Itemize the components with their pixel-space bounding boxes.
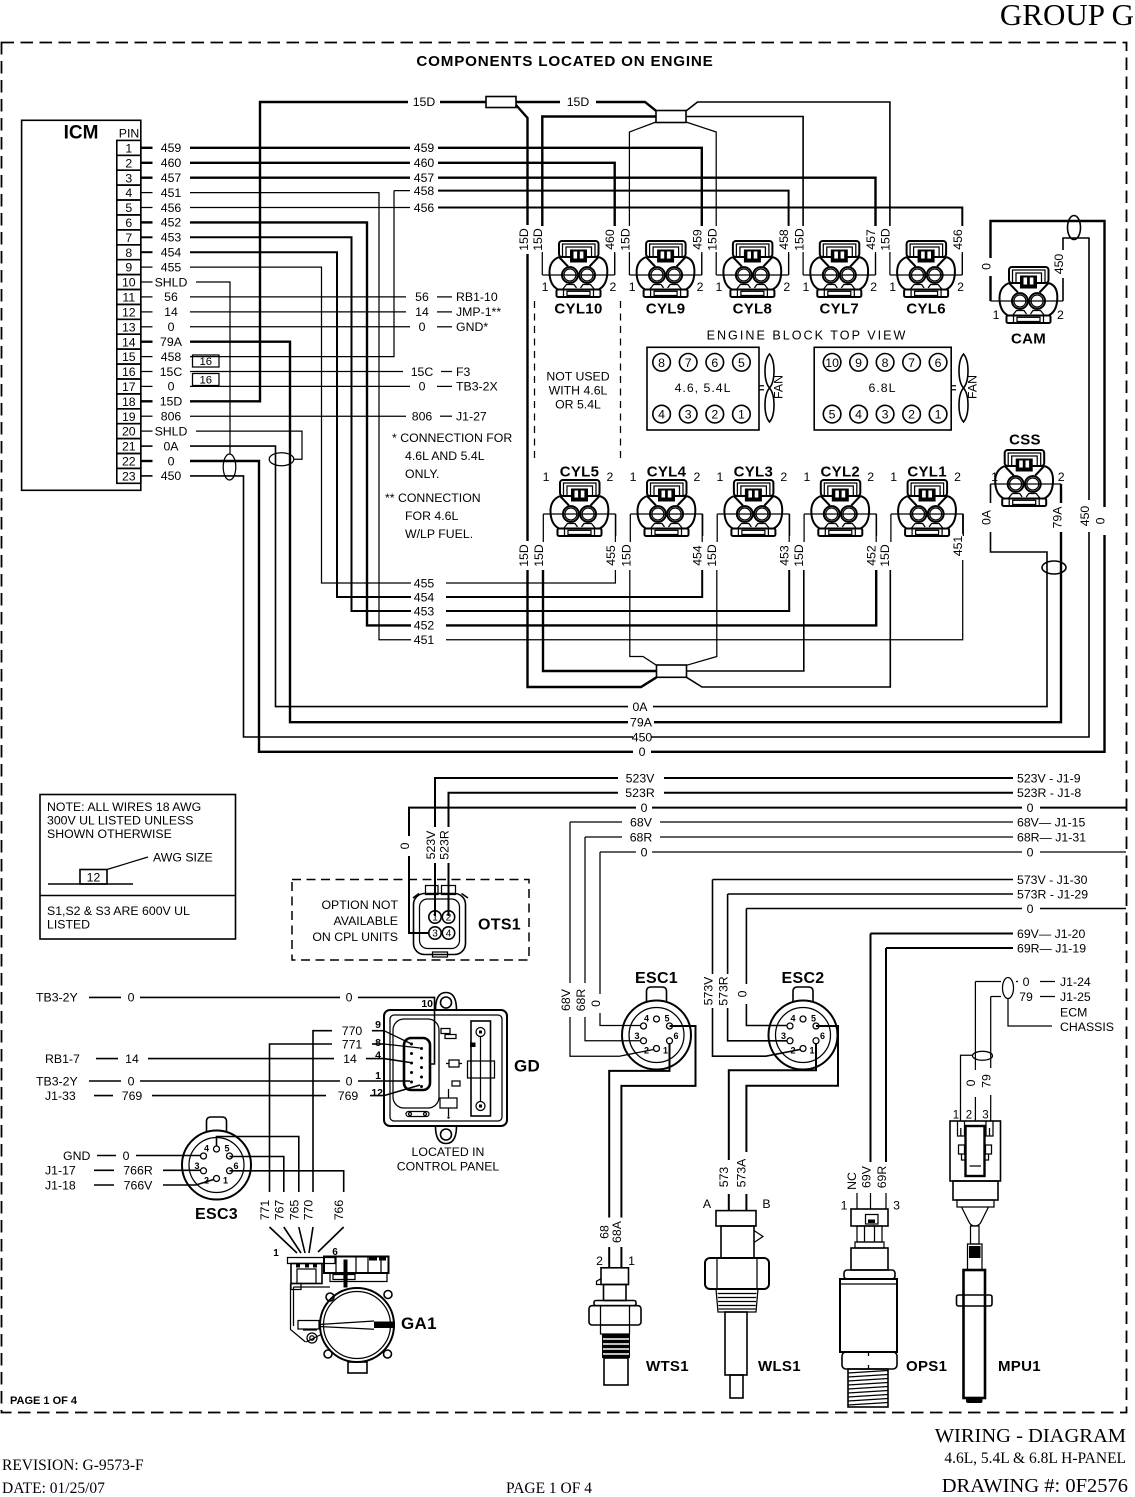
svg-text:FAN: FAN xyxy=(966,375,980,399)
wire 573V riser xyxy=(702,880,801,1057)
svg-text:765: 765 xyxy=(287,1200,301,1221)
connector ESC2 xyxy=(769,970,838,1070)
wire 56 to RB1-10 xyxy=(190,290,498,304)
wire 68R xyxy=(585,830,1086,844)
pin 6 wire label 452 xyxy=(141,216,182,230)
svg-text:8: 8 xyxy=(658,356,665,370)
svg-text:15D: 15D xyxy=(878,228,892,251)
ICM pin 15 xyxy=(117,349,141,364)
svg-text:CYL10: CYL10 xyxy=(554,301,602,318)
svg-text:523V - J1-9: 523V - J1-9 xyxy=(1017,771,1081,785)
svg-text:69R: 69R xyxy=(875,1166,889,1189)
pin 11 wire label 56 xyxy=(141,290,178,304)
wire 0A net (ICM 21 - CSS 1) xyxy=(190,446,1047,714)
connector ESC1 xyxy=(622,970,691,1070)
sensor WTS1 xyxy=(589,1268,641,1385)
pin 5 wire label 456 xyxy=(141,201,182,215)
svg-text:GD: GD xyxy=(514,1057,540,1076)
svg-text:0: 0 xyxy=(128,991,135,1005)
svg-text:2: 2 xyxy=(125,156,132,170)
svg-text:CONTROL PANEL: CONTROL PANEL xyxy=(397,1160,500,1174)
svg-text:15D: 15D xyxy=(413,95,436,109)
svg-text:767: 767 xyxy=(272,1200,286,1221)
ICM pin 21 xyxy=(117,439,141,454)
svg-text:1: 1 xyxy=(628,1254,635,1268)
ICM pin 4 xyxy=(117,185,141,200)
svg-text:4.6L, 5.4L & 6.8L H-PANEL: 4.6L, 5.4L & 6.8L H-PANEL xyxy=(944,1450,1126,1467)
wire 69R xyxy=(886,941,1086,955)
svg-text:15D: 15D xyxy=(531,228,545,251)
svg-text:FOR 4.6L: FOR 4.6L xyxy=(405,509,458,523)
svg-text:771: 771 xyxy=(258,1200,272,1221)
svg-text:458: 458 xyxy=(414,184,435,198)
connector CYL10 xyxy=(542,241,617,318)
svg-text:WLS1: WLS1 xyxy=(758,1358,801,1375)
svg-text:LISTED: LISTED xyxy=(47,918,90,932)
svg-text:ESC3: ESC3 xyxy=(195,1206,238,1223)
svg-text:455: 455 xyxy=(414,576,435,590)
wire 69R riser xyxy=(875,948,889,1209)
ICM pin 20 xyxy=(117,424,141,439)
svg-text:3: 3 xyxy=(125,171,132,185)
svg-text:0: 0 xyxy=(398,842,412,849)
connector CYL1 xyxy=(890,464,963,543)
shield loop MPU1 xyxy=(973,1051,993,1060)
svg-text:1: 1 xyxy=(738,408,745,422)
svg-text:769: 769 xyxy=(122,1089,143,1103)
svg-text:15D: 15D xyxy=(517,228,531,251)
wire 523R xyxy=(438,786,1082,916)
svg-text:2: 2 xyxy=(780,470,787,484)
svg-text:769: 769 xyxy=(338,1089,359,1103)
svg-text:458: 458 xyxy=(161,350,182,364)
svg-text:456: 456 xyxy=(951,229,965,250)
svg-text:460: 460 xyxy=(603,229,617,250)
svg-text:2: 2 xyxy=(954,470,961,484)
GA1 throttle actuator xyxy=(288,1257,396,1374)
svg-text:* CONNECTION FOR: * CONNECTION FOR xyxy=(392,431,512,445)
svg-text:J1-17: J1-17 xyxy=(45,1164,76,1178)
wire 15C to F3 xyxy=(190,365,471,379)
wire 457 xyxy=(190,171,878,275)
svg-text:6: 6 xyxy=(125,216,132,230)
svg-text:CAM: CAM xyxy=(1011,331,1046,348)
svg-text:459: 459 xyxy=(414,141,435,155)
svg-text:766R: 766R xyxy=(123,1164,153,1178)
pin 13 wire label 0 xyxy=(141,320,175,334)
wire 0 (ESC1) xyxy=(600,845,1126,859)
svg-text:0: 0 xyxy=(346,1074,353,1088)
svg-text:2: 2 xyxy=(908,408,915,422)
svg-text:1: 1 xyxy=(716,280,723,294)
svg-text:15D: 15D xyxy=(793,228,807,251)
AWG 16 box b xyxy=(193,374,220,387)
splice S1 xyxy=(486,97,516,108)
svg-text:15C: 15C xyxy=(411,365,434,379)
svg-text:J1-18: J1-18 xyxy=(45,1178,76,1192)
ICM pin 7 xyxy=(117,230,141,245)
GD module xyxy=(384,993,540,1144)
svg-text:RB1-10: RB1-10 xyxy=(456,290,498,304)
svg-text:2: 2 xyxy=(610,280,617,294)
svg-text:0: 0 xyxy=(1023,975,1030,989)
svg-text:79: 79 xyxy=(1019,990,1033,1004)
wire 0 net (ICM 22 - CAM 1) xyxy=(190,221,1108,759)
ICM pin 9 xyxy=(117,260,141,275)
svg-text:0: 0 xyxy=(419,320,426,334)
svg-text:523R: 523R xyxy=(625,786,655,800)
svg-text:CYL5: CYL5 xyxy=(560,464,600,481)
svg-text:0: 0 xyxy=(1027,902,1034,916)
wire 450 net (ICM 23 - CAM 2) xyxy=(190,238,1092,744)
svg-text:DRAWING #: 0F2576: DRAWING #: 0F2576 xyxy=(942,1475,1128,1497)
svg-text:2: 2 xyxy=(694,470,701,484)
svg-text:450: 450 xyxy=(1052,254,1066,275)
shield loop J1-24/25 xyxy=(1003,978,1014,999)
svg-text:16: 16 xyxy=(200,356,213,368)
svg-text:REVISION: G-9573-F: REVISION: G-9573-F xyxy=(2,1457,144,1474)
svg-text:2: 2 xyxy=(957,280,964,294)
wire 69V xyxy=(871,927,1086,941)
svg-text:1: 1 xyxy=(953,1110,959,1122)
svg-text:FAN: FAN xyxy=(772,375,786,399)
svg-text:455: 455 xyxy=(161,260,182,274)
svg-text:CYL3: CYL3 xyxy=(734,464,774,481)
svg-text:3: 3 xyxy=(982,1110,988,1122)
wire 0 (OTS1) xyxy=(398,801,1126,933)
svg-text:OR 5.4L: OR 5.4L xyxy=(555,398,601,412)
svg-text:68V: 68V xyxy=(630,815,653,829)
svg-text:0: 0 xyxy=(639,745,646,759)
svg-text:PAGE 1 OF 4: PAGE 1 OF 4 xyxy=(10,1395,78,1407)
svg-text:DATE: 01/25/07: DATE: 01/25/07 xyxy=(2,1480,105,1497)
svg-text:WIRING - DIAGRAM: WIRING - DIAGRAM xyxy=(935,1425,1126,1447)
svg-text:15D: 15D xyxy=(532,544,546,567)
svg-text:B: B xyxy=(762,1197,770,1211)
svg-text:0: 0 xyxy=(735,990,749,997)
svg-text:573A: 573A xyxy=(735,1158,749,1188)
svg-text:2: 2 xyxy=(870,280,877,294)
svg-text:0A: 0A xyxy=(163,439,179,453)
connector CYL5 xyxy=(543,464,616,543)
note box xyxy=(40,795,236,940)
wire 765 (ESC3 to GA1) xyxy=(217,1137,306,1254)
svg-text:4.6, 5.4L: 4.6, 5.4L xyxy=(675,381,732,395)
svg-text:6.8L: 6.8L xyxy=(869,381,897,395)
dashed separator right xyxy=(620,301,622,458)
svg-text:573V: 573V xyxy=(702,976,716,1006)
ICM pin 8 xyxy=(117,245,141,260)
svg-text:6: 6 xyxy=(935,356,942,370)
connector ESC3 xyxy=(182,1117,251,1223)
wire 806 to J1-27 xyxy=(190,410,487,424)
connector CAM xyxy=(991,267,1065,348)
sensor OPS1 xyxy=(840,1209,897,1407)
GD location note xyxy=(397,1145,500,1174)
svg-text:NOT USED: NOT USED xyxy=(546,370,609,384)
wire NC stub xyxy=(845,1172,859,1209)
wire 573 (ESC2 to WLS1) xyxy=(717,1043,816,1211)
connector CYL9 xyxy=(629,241,704,318)
svg-text:2: 2 xyxy=(697,280,704,294)
svg-text:5: 5 xyxy=(738,356,745,370)
splice S3 xyxy=(657,665,687,677)
shield loop CSS xyxy=(1042,561,1066,574)
svg-text:453: 453 xyxy=(414,604,435,618)
svg-text:CYL8: CYL8 xyxy=(733,301,773,318)
connector OTS1 xyxy=(413,886,521,958)
wire 455 xyxy=(190,267,618,590)
svg-text:3: 3 xyxy=(685,408,692,422)
svg-text:459: 459 xyxy=(690,229,704,250)
note: connection for 4.6L w/LP fuel xyxy=(385,491,481,541)
svg-text:CYL7: CYL7 xyxy=(820,301,860,318)
svg-text:0: 0 xyxy=(1094,517,1108,524)
svg-text:19: 19 xyxy=(122,410,136,424)
svg-text:15D: 15D xyxy=(620,544,634,567)
svg-text:79A: 79A xyxy=(1051,506,1065,529)
svg-text:450: 450 xyxy=(1078,506,1092,527)
svg-text:457: 457 xyxy=(864,229,878,250)
wire 0 (GND to ESC3) xyxy=(63,1149,201,1163)
ICM module box xyxy=(22,120,141,490)
svg-text:23: 23 xyxy=(122,470,136,484)
svg-text:56: 56 xyxy=(415,290,429,304)
svg-text:0A: 0A xyxy=(980,509,994,525)
svg-text:1: 1 xyxy=(542,280,549,294)
svg-text:4: 4 xyxy=(125,186,132,200)
svg-text:TB3-2Y: TB3-2Y xyxy=(36,1074,78,1088)
wire 767 (ESC3 to GA1) xyxy=(230,1157,302,1254)
svg-text:F3: F3 xyxy=(456,365,471,379)
svg-text:0: 0 xyxy=(1027,801,1034,815)
wire 68A (ESC1 to WTS1) xyxy=(610,1026,696,1268)
wire 0 riser ESC2 xyxy=(735,909,786,1026)
wire 14 (RB1-7 to GD4) xyxy=(45,1052,410,1066)
svg-text:0: 0 xyxy=(123,1149,130,1163)
svg-text:PIN: PIN xyxy=(119,127,140,141)
ICM pin 13 xyxy=(117,319,141,334)
pin 21 wire label 0A xyxy=(141,439,180,453)
svg-text:68V: 68V xyxy=(559,988,573,1011)
svg-text:TB3-2Y: TB3-2Y xyxy=(36,991,78,1005)
wire 0 TB3-2Y to GD10 xyxy=(36,991,435,1065)
wire 573A (ESC2 to WLS1) xyxy=(735,1026,839,1211)
svg-text:CSS: CSS xyxy=(1009,432,1041,449)
pin 3 wire label 457 xyxy=(141,171,182,185)
svg-text:0: 0 xyxy=(419,380,426,394)
svg-text:1: 1 xyxy=(935,408,942,422)
svg-text:0: 0 xyxy=(168,320,175,334)
svg-text:ECM: ECM xyxy=(1060,1006,1087,1020)
svg-text:16: 16 xyxy=(200,374,213,386)
svg-text:** CONNECTION: ** CONNECTION xyxy=(385,491,481,505)
svg-text:10: 10 xyxy=(122,276,136,290)
svg-text:454: 454 xyxy=(161,246,182,260)
svg-text:0: 0 xyxy=(641,845,648,859)
svg-text:GND: GND xyxy=(63,1149,90,1163)
sensor WLS1 xyxy=(705,1211,769,1398)
ICM pin 22 xyxy=(117,454,141,469)
shield loop CAM xyxy=(1068,216,1081,240)
svg-text:573R - J1-29: 573R - J1-29 xyxy=(1017,887,1088,901)
svg-text:1: 1 xyxy=(125,141,132,155)
svg-text:0: 0 xyxy=(128,1074,135,1088)
svg-text:2: 2 xyxy=(867,470,874,484)
svg-text:2: 2 xyxy=(966,1110,972,1122)
wire 771 (GD8) xyxy=(258,1037,420,1253)
wire 523V xyxy=(424,771,1081,916)
wire ECM chassis xyxy=(1008,999,1114,1035)
note: connection for 4.6L and 5.4L xyxy=(392,431,512,481)
svg-text:451: 451 xyxy=(951,536,965,557)
svg-text:3: 3 xyxy=(432,929,438,940)
svg-text:4.6L AND 5.4L: 4.6L AND 5.4L xyxy=(405,449,485,463)
ICM pin 5 xyxy=(117,200,141,215)
svg-text:523R: 523R xyxy=(438,830,452,860)
svg-text:300V UL LISTED UNLESS: 300V UL LISTED UNLESS xyxy=(47,814,194,828)
svg-text:454: 454 xyxy=(691,545,705,566)
svg-text:9: 9 xyxy=(855,356,862,370)
pin 18 wire label 15D xyxy=(141,395,183,409)
svg-text:453: 453 xyxy=(161,231,182,245)
svg-text:0A: 0A xyxy=(632,700,648,714)
WTS1 pin labels xyxy=(596,1254,635,1268)
svg-text:450: 450 xyxy=(161,469,182,483)
pin 7 wire label 453 xyxy=(141,231,182,245)
svg-text:459: 459 xyxy=(161,141,182,155)
svg-text:0: 0 xyxy=(964,1079,978,1086)
pin 1 wire label 459 xyxy=(141,141,182,155)
svg-text:452: 452 xyxy=(414,619,435,633)
svg-text:COMPONENTS LOCATED ON ENGINE: COMPONENTS LOCATED ON ENGINE xyxy=(416,53,713,70)
svg-text:NOTE: ALL WIRES 18 AWG: NOTE: ALL WIRES 18 AWG xyxy=(47,800,201,814)
pin 19 wire label 806 xyxy=(141,410,182,424)
svg-text:CHASSIS: CHASSIS xyxy=(1060,1020,1114,1034)
svg-text:8: 8 xyxy=(125,246,132,260)
svg-text:OPTION NOT: OPTION NOT xyxy=(321,898,398,912)
svg-text:PAGE 1 OF 4: PAGE 1 OF 4 xyxy=(506,1480,592,1497)
wire SHLD pin10 xyxy=(196,282,236,480)
connector CYL2 xyxy=(803,464,876,543)
wire 451 xyxy=(190,193,965,647)
svg-text:1: 1 xyxy=(890,470,897,484)
svg-text:2: 2 xyxy=(1057,308,1064,322)
svg-text:RB1-7: RB1-7 xyxy=(45,1052,80,1066)
svg-text:2: 2 xyxy=(711,408,718,422)
svg-text:W/LP FUEL.: W/LP FUEL. xyxy=(405,527,473,541)
svg-text:766: 766 xyxy=(332,1200,346,1221)
ICM pin 3 xyxy=(117,170,141,185)
pin 16 wire label 15C xyxy=(141,365,183,379)
svg-text:68R: 68R xyxy=(574,989,588,1012)
svg-text:12: 12 xyxy=(122,306,136,320)
svg-text:TB3-2X: TB3-2X xyxy=(456,380,498,394)
svg-text:10: 10 xyxy=(825,356,839,370)
option note dashed box xyxy=(292,880,529,961)
svg-text:0: 0 xyxy=(168,380,175,394)
pin 23 wire label 450 xyxy=(141,469,182,483)
svg-text:8: 8 xyxy=(882,356,889,370)
svg-text:7: 7 xyxy=(908,356,915,370)
svg-text:766V: 766V xyxy=(124,1178,154,1192)
svg-text:573: 573 xyxy=(717,1167,731,1188)
connector CYL6 xyxy=(889,241,964,318)
svg-text:OPS1: OPS1 xyxy=(906,1358,947,1375)
wire 68V xyxy=(570,815,1086,829)
svg-text:453: 453 xyxy=(778,545,792,566)
ICM pin 1 xyxy=(117,140,141,155)
pin 8 wire label 454 xyxy=(141,246,182,260)
svg-text:457: 457 xyxy=(414,171,435,185)
svg-text:9: 9 xyxy=(375,1019,381,1031)
ICM pin 12 xyxy=(117,304,141,319)
AWG size symbol xyxy=(48,851,213,885)
pin 12 wire label 14 xyxy=(141,305,178,319)
engine block 6.8L xyxy=(814,347,951,430)
svg-text:16: 16 xyxy=(122,365,136,379)
svg-text:457: 457 xyxy=(161,171,182,185)
svg-text:0: 0 xyxy=(980,263,994,270)
wire 0 (TB3-2Y to GD1) xyxy=(36,1074,410,1088)
svg-text:806: 806 xyxy=(412,410,433,424)
svg-text:WTS1: WTS1 xyxy=(646,1358,689,1375)
wire 0 (MPU1) xyxy=(975,975,1091,989)
wire 766R (J1-17 to ESC3) xyxy=(45,1164,201,1178)
svg-text:1: 1 xyxy=(717,470,724,484)
svg-text:JMP-1**: JMP-1** xyxy=(456,305,501,319)
svg-text:7: 7 xyxy=(125,231,132,245)
svg-text:14: 14 xyxy=(415,305,429,319)
svg-text:771: 771 xyxy=(342,1037,363,1051)
svg-text:1: 1 xyxy=(803,470,810,484)
wire 769 (J1-33 to GD12) xyxy=(45,1085,420,1103)
svg-text:69V: 69V xyxy=(860,1165,874,1188)
svg-text:1: 1 xyxy=(630,470,637,484)
wire 0 riser ESC1 xyxy=(589,852,640,1026)
wire 14 to JMP-1 xyxy=(190,305,501,319)
fan symbol right xyxy=(951,354,979,422)
svg-text:9: 9 xyxy=(125,261,132,275)
svg-text:15D: 15D xyxy=(792,544,806,567)
AWG 16 box a xyxy=(193,355,220,368)
svg-text:GA1: GA1 xyxy=(401,1314,437,1333)
svg-text:573R: 573R xyxy=(717,976,731,1006)
svg-text:21: 21 xyxy=(122,440,136,454)
svg-text:GND*: GND* xyxy=(456,320,488,334)
pin 15 wire label 458 xyxy=(141,350,182,364)
wire 460 xyxy=(190,156,617,275)
wire 452 xyxy=(190,222,879,632)
svg-text:22: 22 xyxy=(122,455,136,469)
wire MPU1 shield drain xyxy=(961,1055,973,1121)
svg-text:14: 14 xyxy=(122,335,136,349)
svg-text:12: 12 xyxy=(87,871,101,885)
ICM pin 16 xyxy=(117,364,141,379)
svg-text:79: 79 xyxy=(980,1074,994,1088)
splice S2 xyxy=(656,111,686,123)
pin 10 wire label SHLD xyxy=(141,275,188,289)
svg-text:10: 10 xyxy=(421,998,433,1010)
svg-text:A: A xyxy=(703,1197,712,1211)
svg-text:0: 0 xyxy=(641,801,648,815)
wire 453 xyxy=(190,237,792,618)
WLS1 pin labels xyxy=(703,1197,771,1211)
svg-text:68R— J1-31: 68R— J1-31 xyxy=(1017,830,1086,844)
svg-text:ESC2: ESC2 xyxy=(782,970,825,987)
connector CYL4 xyxy=(630,464,703,543)
svg-text:458: 458 xyxy=(777,229,791,250)
